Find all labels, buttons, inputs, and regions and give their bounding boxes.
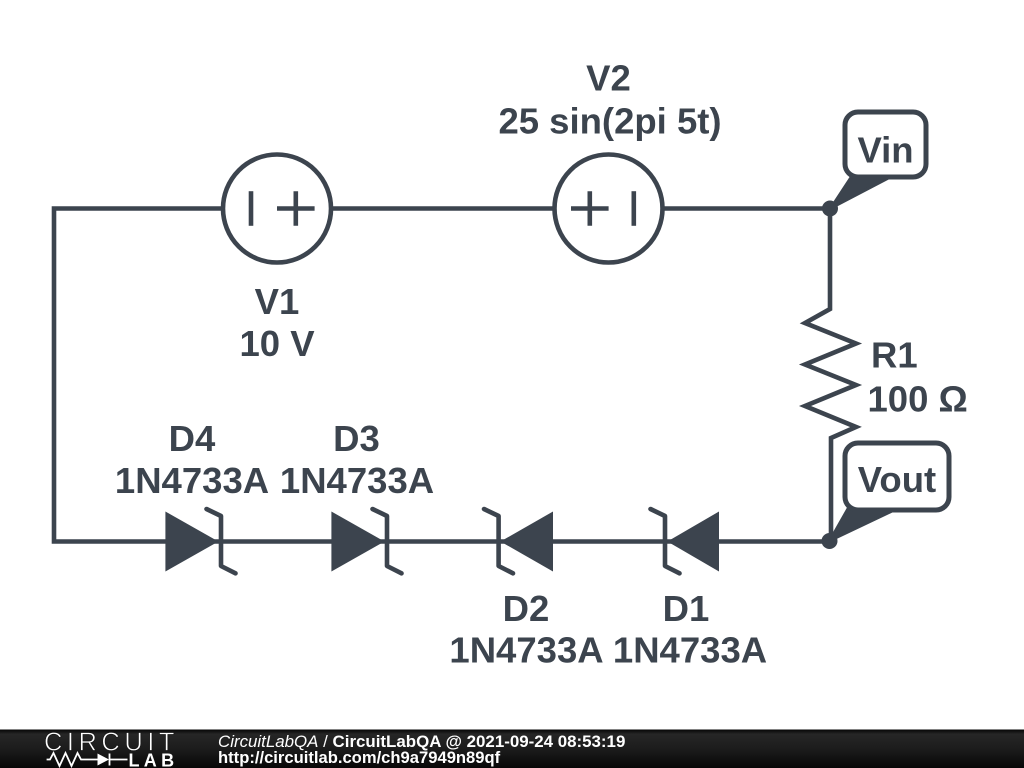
svg-text:1N4733A: 1N4733A	[280, 460, 434, 501]
svg-text:D1: D1	[663, 588, 710, 629]
svg-text:http://circuitlab.com/ch9a7949: http://circuitlab.com/ch9a7949n89qf	[218, 748, 501, 767]
svg-text:1N4733A: 1N4733A	[115, 460, 269, 501]
svg-text:10 V: 10 V	[239, 323, 315, 364]
svg-text:V1: V1	[255, 281, 300, 322]
svg-text:Vout: Vout	[858, 459, 936, 500]
svg-text:25 sin(2pi 5t): 25 sin(2pi 5t)	[498, 101, 721, 142]
svg-text:1N4733A: 1N4733A	[449, 629, 603, 670]
svg-text:100 Ω: 100 Ω	[868, 378, 968, 419]
svg-text:1N4733A: 1N4733A	[613, 629, 767, 670]
svg-text:D4: D4	[169, 418, 216, 459]
svg-text:LAB: LAB	[129, 750, 179, 768]
svg-text:Vin: Vin	[857, 130, 913, 171]
svg-text:D2: D2	[503, 588, 550, 629]
svg-text:D3: D3	[333, 418, 380, 459]
svg-text:R1: R1	[871, 334, 918, 375]
svg-text:V2: V2	[586, 58, 631, 99]
